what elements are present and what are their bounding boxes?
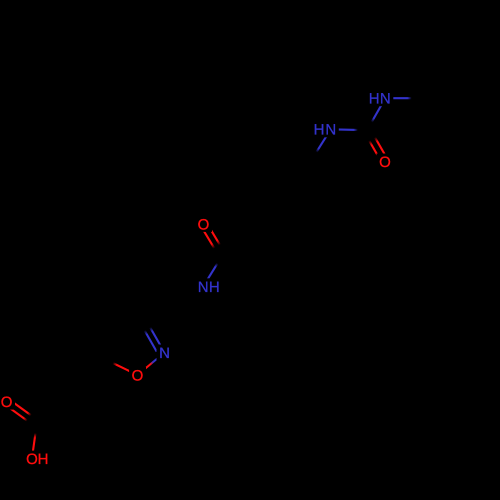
svg-text:O: O (198, 216, 210, 233)
svg-text:O: O (1, 394, 13, 411)
svg-text:N: N (198, 279, 209, 296)
svg-text:O: O (26, 451, 38, 468)
svg-text:N: N (325, 122, 336, 139)
svg-text:H: H (369, 91, 380, 108)
svg-text:H: H (209, 279, 220, 296)
svg-text:N: N (159, 345, 170, 362)
svg-text:H: H (38, 451, 49, 468)
svg-text:N: N (380, 91, 391, 108)
svg-text:O: O (132, 367, 144, 384)
svg-text:H: H (314, 122, 325, 139)
svg-text:O: O (379, 154, 391, 171)
